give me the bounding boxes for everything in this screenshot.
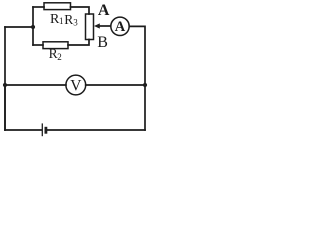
svg-text:A: A	[115, 19, 126, 35]
svg-text:2: 2	[57, 52, 62, 62]
svg-text:B: B	[97, 34, 108, 51]
svg-text:A: A	[98, 2, 110, 19]
svg-text:V: V	[70, 77, 82, 94]
svg-text:R: R	[64, 12, 73, 27]
svg-text:1: 1	[59, 16, 64, 26]
svg-text:3: 3	[73, 18, 78, 28]
